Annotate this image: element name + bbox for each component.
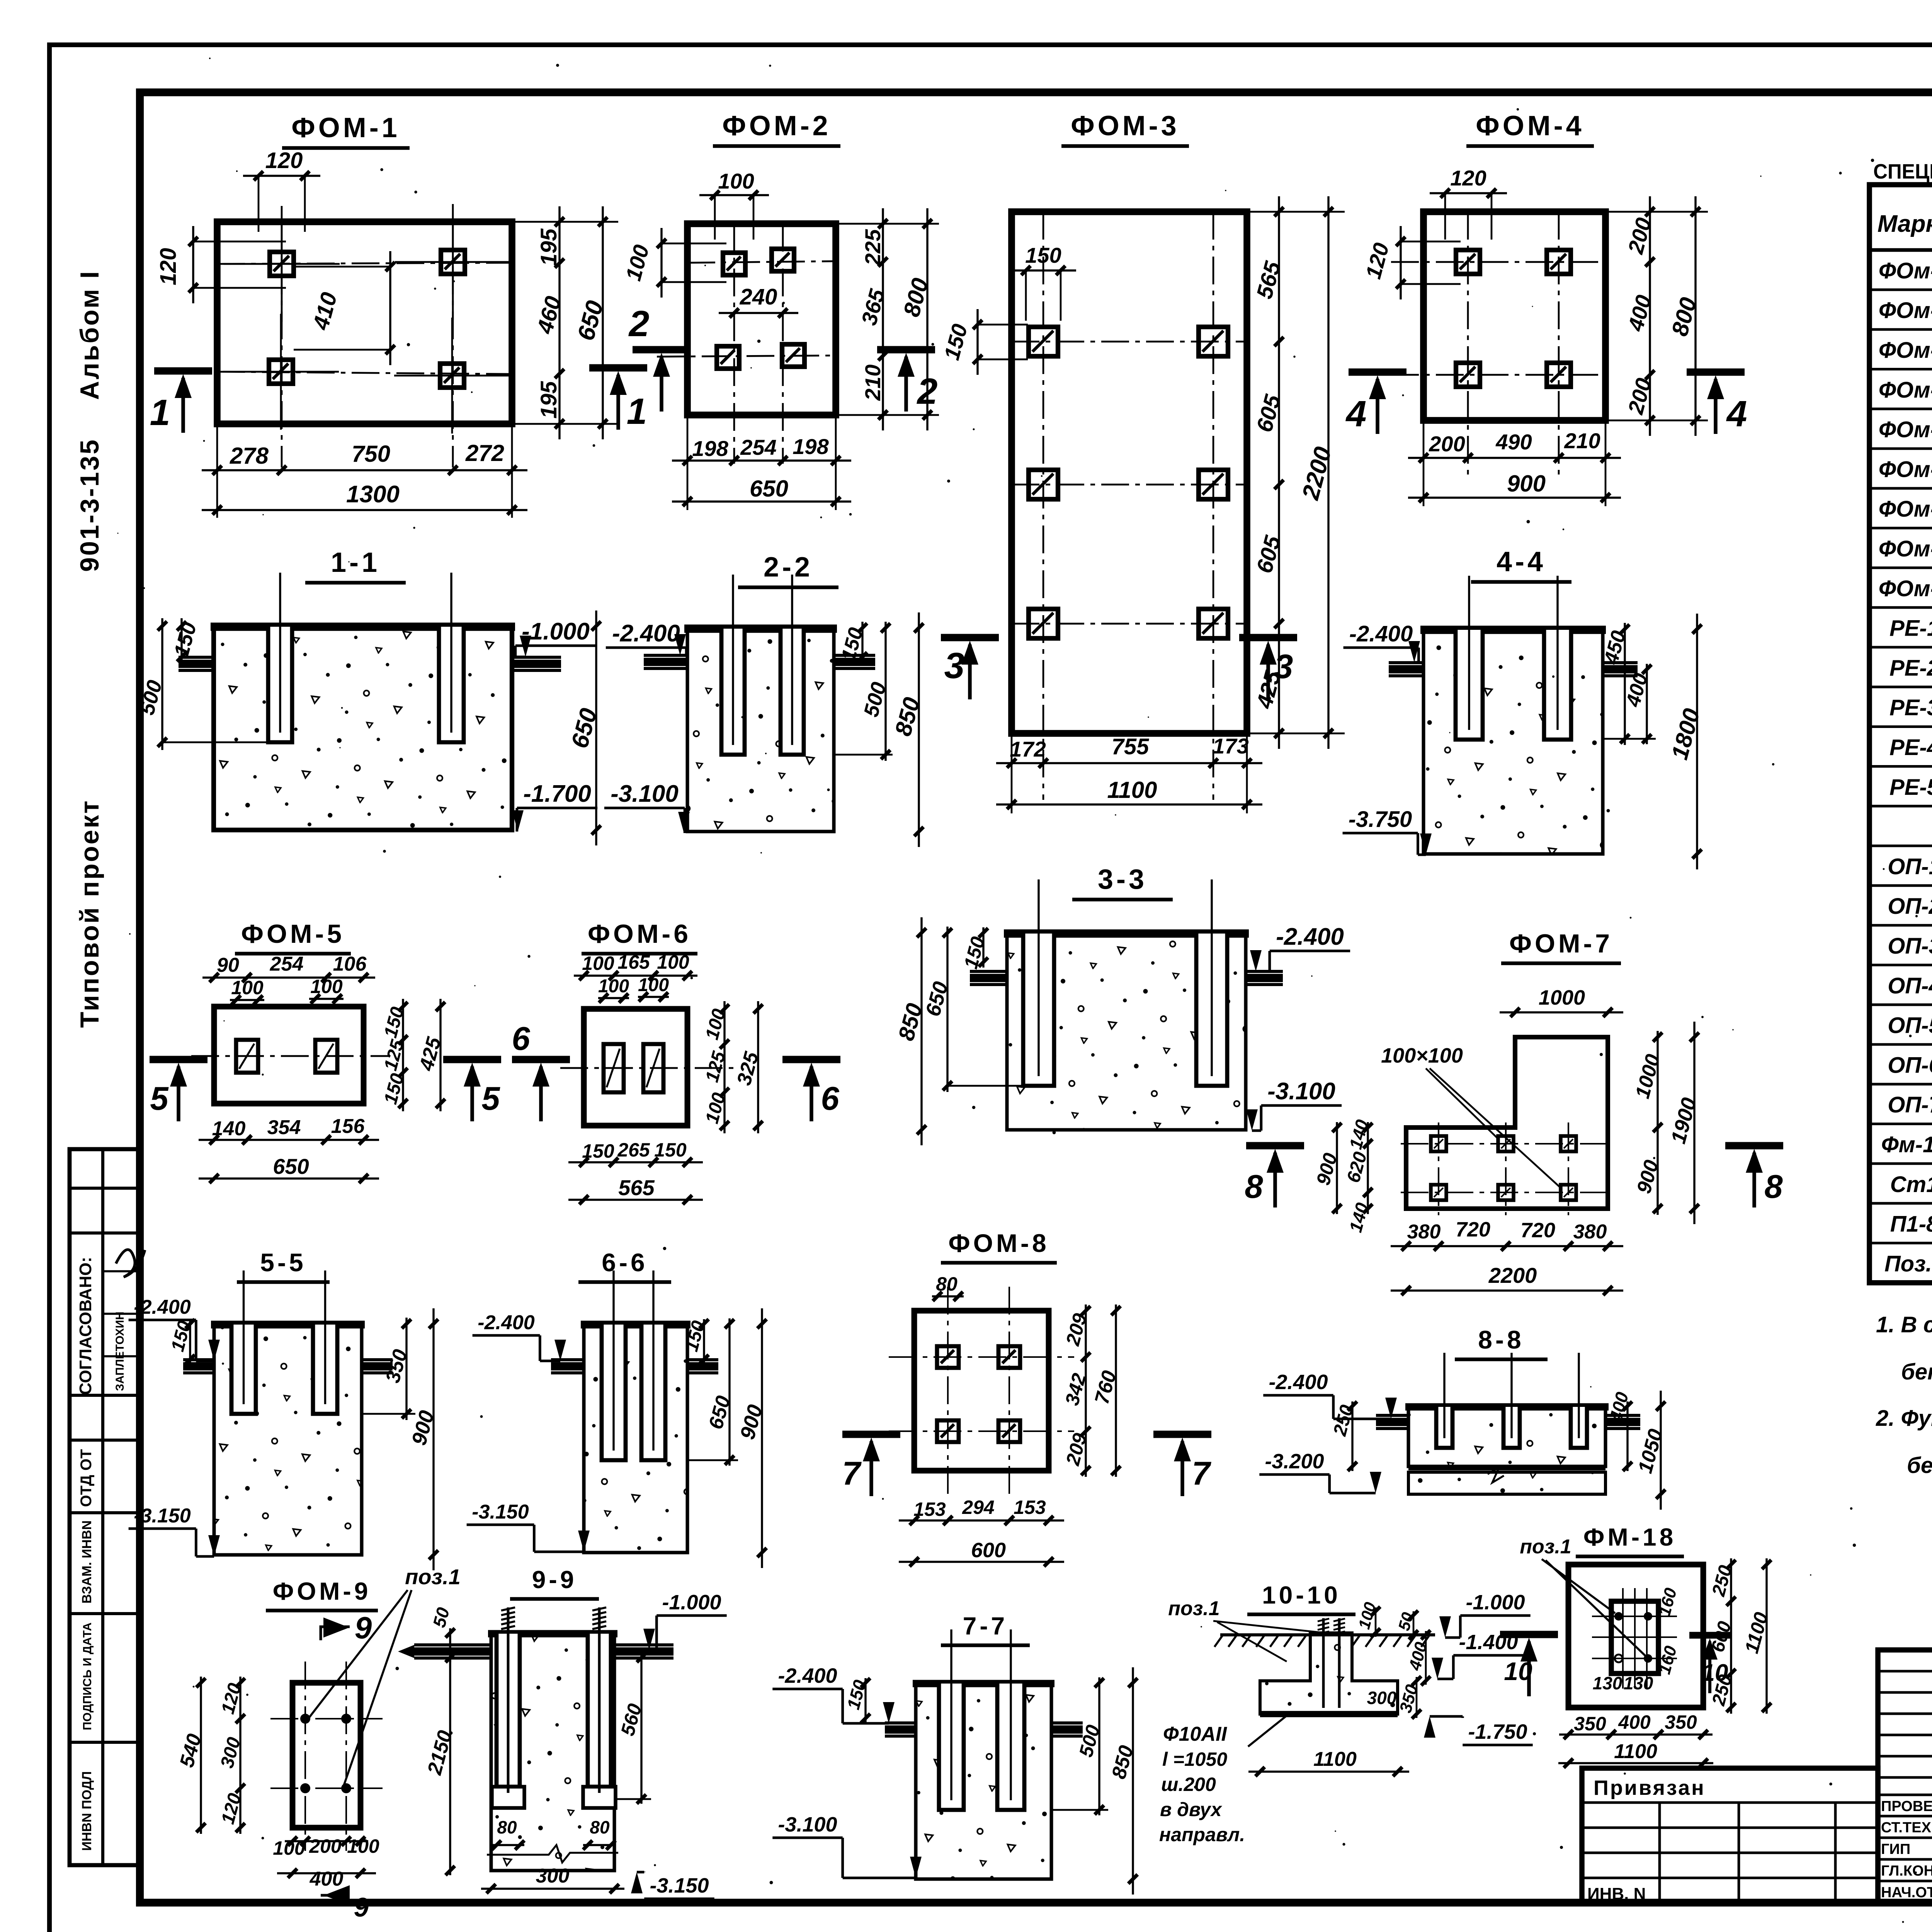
svg-text:РЕ-1: РЕ-1 — [1889, 616, 1932, 641]
section mark 5 left — [150, 1056, 207, 1063]
section mark 1 left — [154, 367, 212, 375]
svg-text:720: 720 — [1456, 1218, 1490, 1241]
svg-text:650: 650 — [750, 476, 788, 502]
svg-text:1100: 1100 — [1313, 1748, 1357, 1770]
plan FOM-1 dim 410 — [389, 251, 391, 365]
section 9-9 pipes — [414, 1643, 491, 1646]
svg-text:106: 106 — [333, 953, 367, 975]
svg-text:ИНВ. N: ИНВ. N — [1587, 1884, 1646, 1903]
svg-text:565: 565 — [618, 1175, 655, 1200]
plan FOM-3 bottom dims 172/755/173/1100 — [996, 762, 1262, 764]
plan FOM-7 bottom dims 380/720/720/380/2200 — [1391, 1245, 1623, 1247]
plan FOM-8 bottom dims 153/294/153/600 — [899, 1519, 1064, 1521]
svg-text:Марка: Марка — [1878, 211, 1932, 237]
plan FOM-5 top dims 90/254/106 + 100/100 — [202, 976, 375, 978]
section 5-5 slots — [231, 1325, 256, 1414]
plan FOM-9 outline — [293, 1683, 361, 1828]
section 2-2 slots — [721, 629, 745, 755]
svg-text:ФОМ-1: ФОМ-1 — [291, 112, 400, 143]
section 4-4 pipes — [1389, 661, 1423, 664]
svg-text:100: 100 — [347, 1835, 379, 1857]
svg-text:4: 4 — [1345, 393, 1367, 434]
svg-text:150: 150 — [1025, 243, 1061, 267]
svg-text:380: 380 — [1573, 1221, 1607, 1243]
svg-text:350: 350 — [1665, 1711, 1697, 1733]
svg-text:Фм-18: Фм-18 — [1881, 1132, 1932, 1157]
plan FM-18 bolt dots — [1614, 1612, 1623, 1621]
plan FOM-1 top dim 120 — [243, 175, 320, 177]
plan FOM-1 bottom dims 278/750/272/1300 — [202, 469, 527, 471]
svg-text:ФОм-7: ФОм-7 — [1879, 497, 1932, 522]
svg-text:755: 755 — [1112, 734, 1150, 759]
section 10-10 sec mark 10 — [1500, 1631, 1558, 1638]
svg-text:поз.1: поз.1 — [1520, 1536, 1571, 1558]
section 8-8 upper body — [1408, 1406, 1605, 1466]
section 5-5 right dims 350/900 — [405, 1318, 407, 1420]
svg-text:-2.400: -2.400 — [478, 1311, 535, 1334]
plan FOM-5 bottom dims 140/354/156/650 — [199, 1139, 379, 1141]
section mark 2 left — [633, 346, 690, 354]
plan FM-18 sec mark 10 — [1689, 1632, 1730, 1639]
plan FOM-8 anchor squares — [937, 1346, 959, 1368]
svg-text:1: 1 — [150, 392, 170, 433]
svg-text:ОП-4: ОП-4 — [1888, 973, 1932, 998]
section 8-8 right dims 400/1050 — [1626, 1401, 1628, 1471]
plan FOM-9 section mark 9 top — [321, 1627, 350, 1640]
svg-text:10: 10 — [1702, 1660, 1728, 1686]
section mark 2 right — [877, 346, 935, 354]
svg-text:ОП-5: ОП-5 — [1888, 1013, 1932, 1038]
svg-text:100: 100 — [657, 951, 689, 973]
left margin lower table (approvals) — [70, 1149, 140, 1865]
section 5-5 body — [214, 1324, 362, 1555]
section 10-10 bottom dim 1100 — [1248, 1770, 1409, 1772]
svg-text:254: 254 — [740, 435, 776, 459]
svg-text:ФОм-4: ФОм-4 — [1879, 378, 1932, 403]
plan FM-18 inner column with mesh — [1611, 1601, 1658, 1673]
svg-text:3-3: 3-3 — [1098, 864, 1147, 895]
svg-text:172: 172 — [1010, 737, 1046, 761]
plan FOM-5 outline — [214, 1007, 364, 1104]
section 4-4 slots — [1456, 630, 1483, 740]
plan FOM-4 top dim 120 — [1430, 192, 1507, 194]
plan FOM-3 axes — [1043, 212, 1044, 800]
section 4-4 body — [1423, 629, 1603, 854]
section mark 1 right — [589, 364, 647, 372]
plan FOM-6 bottom dims 150/265/150/565 — [568, 1161, 703, 1163]
svg-text:ФОм-9: ФОм-9 — [1879, 576, 1932, 601]
svg-text:СТ.ТЕХНИК: СТ.ТЕХНИК — [1881, 1820, 1932, 1836]
section 1-1 pipes — [179, 656, 214, 659]
plan FOM-4 axes — [1467, 212, 1469, 475]
svg-text:ФОМ-8: ФОМ-8 — [948, 1229, 1049, 1257]
svg-text:265: 265 — [617, 1139, 650, 1161]
plan FOM-9 bottom dims 100/200/100/400 — [285, 1840, 368, 1842]
svg-text:900: 900 — [1507, 471, 1546, 497]
svg-text:90: 90 — [217, 954, 239, 976]
svg-text:2200: 2200 — [1488, 1263, 1537, 1287]
section 3-3 body — [1007, 933, 1246, 1130]
section 10-10 pedestal — [1260, 1633, 1398, 1714]
svg-text:8: 8 — [1764, 1168, 1783, 1205]
plan FOM-4 left dim 120 — [1400, 226, 1401, 299]
svg-text:ЗАПЛЕТОХИН: ЗАПЛЕТОХИН — [114, 1311, 126, 1391]
section 3-3 slots — [1023, 934, 1054, 1086]
svg-text:бетона М 150.: бетона М 150. — [1907, 1453, 1932, 1478]
section mark 6 left — [512, 1056, 570, 1063]
svg-text:278: 278 — [230, 443, 269, 469]
svg-text:поз.1: поз.1 — [405, 1565, 461, 1589]
plan FOM-2 axes — [733, 224, 735, 464]
svg-text:ФОМ-5: ФОМ-5 — [241, 919, 345, 949]
svg-text:7-7: 7-7 — [963, 1612, 1008, 1640]
svg-text:210: 210 — [861, 364, 885, 401]
section 2-2 body — [687, 628, 834, 832]
plan FOM-2 dim 240 — [719, 312, 798, 314]
svg-text:-2.400: -2.400 — [778, 1664, 837, 1687]
section mark 7 right — [1153, 1431, 1211, 1438]
svg-text:901-3-135: 901-3-135 — [75, 438, 104, 572]
plan FOM-1 left dim 120 — [192, 226, 194, 303]
section 6-6 body — [584, 1324, 687, 1553]
svg-text:5: 5 — [150, 1080, 169, 1117]
svg-text:100×100: 100×100 — [1381, 1044, 1463, 1067]
svg-text:2: 2 — [917, 371, 938, 412]
section mark 3 right — [1239, 634, 1297, 641]
plan FM-18 right dims 250/600/10?/250 + 1100 — [1730, 1558, 1732, 1714]
svg-text:100: 100 — [273, 1837, 305, 1859]
plan FOM-7 axes — [1438, 1122, 1439, 1215]
svg-text:120: 120 — [156, 248, 181, 286]
section 8-8 left dim 250 — [1351, 1401, 1353, 1471]
svg-text:10: 10 — [1504, 1657, 1532, 1685]
svg-text:-3.750: -3.750 — [1349, 807, 1412, 832]
plan FOM-5 slots — [236, 1040, 258, 1073]
svg-text:РЕ-2: РЕ-2 — [1889, 655, 1932, 680]
svg-text:ФОм-2: ФОм-2 — [1879, 298, 1932, 323]
svg-text:-2.400: -2.400 — [612, 620, 680, 647]
svg-text:2. Фундаменты под оборудован: 2. Фундаменты под оборудование выполнить… — [1876, 1406, 1932, 1431]
svg-text:-2.400: -2.400 — [1269, 1371, 1328, 1394]
plan FM-18 bottom dims 350/400/350/1100 — [1559, 1733, 1713, 1735]
svg-text:350: 350 — [1574, 1713, 1606, 1735]
specification table grid — [1869, 185, 1932, 1283]
section 5-5 left dim 150 — [189, 1319, 191, 1364]
plan FOM-3 anchor squares — [1029, 327, 1058, 356]
section mark 4 left — [1349, 369, 1406, 376]
svg-text:-3.150: -3.150 — [134, 1505, 191, 1527]
plan FOM-9 section mark 9 bottom — [321, 1894, 350, 1897]
section 8-8 pipes — [1376, 1414, 1408, 1417]
svg-text:-2.400: -2.400 — [1349, 621, 1413, 646]
section 3-3 left dims 150/650/850 — [982, 927, 984, 968]
signature squiggle — [116, 1250, 145, 1277]
section 7-7 left dim 150 — [864, 1678, 866, 1723]
svg-text:100: 100 — [718, 169, 754, 193]
svg-text:СПЕЦИФИКАЦИЯ ЭЛЕМЕНТОВ К СХЕМА: СПЕЦИФИКАЦИЯ ЭЛЕМЕНТОВ К СХЕМАМ, РАСПОЛО… — [1873, 160, 1932, 183]
plan FOM-8 axes — [947, 1287, 949, 1495]
plan FOM-8 top dim 80 — [932, 1295, 964, 1297]
svg-text:1100: 1100 — [1614, 1740, 1657, 1763]
section 8-8 slots — [1436, 1407, 1452, 1448]
plan FOM-7 left dims 140/620/900/140 — [1367, 1122, 1369, 1214]
svg-text:ФОМ-2: ФОМ-2 — [722, 111, 831, 141]
section 6-6 pipes — [551, 1358, 584, 1361]
svg-text:400: 400 — [310, 1868, 344, 1890]
svg-text:600: 600 — [971, 1539, 1006, 1562]
svg-text:120: 120 — [265, 148, 303, 173]
svg-text:9: 9 — [354, 1892, 369, 1922]
section 1-1 left dims 150/500 — [180, 618, 182, 665]
section 4-4 right dims 450/400/1800 — [1624, 623, 1626, 745]
plan FOM-2 top dim 100 — [699, 194, 769, 196]
svg-text:5-5: 5-5 — [260, 1248, 306, 1277]
svg-text:ГЛ.КОНСТР: ГЛ.КОНСТР — [1881, 1863, 1932, 1879]
section 10-10 right dims 100/50/400/350 — [1375, 1607, 1377, 1637]
section mark 7 left — [842, 1431, 900, 1438]
plan FOM-2 bottom dims 198/254/198/650 — [672, 459, 851, 461]
svg-text:ФОм-5: ФОм-5 — [1879, 417, 1932, 442]
svg-text:ОП-1: ОП-1 — [1888, 854, 1932, 879]
svg-text:100: 100 — [310, 976, 343, 997]
svg-text:ФОм-3: ФОм-3 — [1879, 338, 1932, 363]
svg-text:130: 130 — [1624, 1673, 1653, 1693]
svg-text:-2.400: -2.400 — [134, 1296, 191, 1318]
svg-text:272: 272 — [465, 440, 504, 466]
section 7-7 pipes — [885, 1721, 916, 1725]
svg-text:-3.100: -3.100 — [611, 781, 679, 807]
svg-text:6-6: 6-6 — [602, 1248, 648, 1277]
svg-text:в двух: в двух — [1160, 1799, 1223, 1820]
section 9-9 left dims 50/2150 — [449, 1628, 451, 1662]
section 2-2 pipes — [644, 654, 687, 657]
plan FOM-4 bottom dims 200/490/210/900 — [1408, 457, 1621, 459]
svg-text:300: 300 — [1367, 1688, 1397, 1708]
svg-text:100: 100 — [582, 952, 614, 974]
svg-text:-1.000: -1.000 — [522, 618, 590, 645]
svg-text:5: 5 — [481, 1080, 500, 1117]
svg-text:165: 165 — [617, 951, 650, 973]
svg-text:П1-8: П1-8 — [1890, 1212, 1932, 1237]
svg-text:80: 80 — [590, 1817, 610, 1837]
svg-text:198: 198 — [692, 436, 728, 461]
section mark 5 right — [443, 1056, 501, 1063]
svg-text:-3.200: -3.200 — [1265, 1450, 1324, 1473]
svg-text:80: 80 — [936, 1273, 957, 1295]
svg-text:750: 750 — [352, 441, 390, 467]
svg-text:130: 130 — [1593, 1673, 1622, 1693]
privyazan block — [1582, 1768, 1878, 1903]
svg-text:153: 153 — [913, 1498, 946, 1520]
signature grid — [1878, 1650, 1932, 1903]
plan FOM-4 outline — [1423, 212, 1605, 420]
plan FOM-4 anchor squares — [1456, 250, 1480, 274]
svg-text:6: 6 — [512, 1020, 530, 1057]
plan FOM-3 left dim 150 — [976, 309, 978, 375]
section mark 6 right — [782, 1056, 840, 1063]
svg-text:100: 100 — [638, 975, 669, 995]
svg-text:156: 156 — [331, 1115, 365, 1138]
svg-text:-3.150: -3.150 — [472, 1501, 529, 1523]
plan FOM-1 right dims 195/460/195/650 — [558, 206, 560, 439]
svg-text:Ф10АII: Ф10АII — [1163, 1723, 1227, 1745]
svg-text:ФОМ-4: ФОМ-4 — [1476, 111, 1584, 141]
plan FOM-9 axes — [304, 1662, 306, 1851]
svg-text:150: 150 — [582, 1140, 614, 1162]
svg-text:380: 380 — [1407, 1221, 1441, 1243]
svg-text:-2.400: -2.400 — [1276, 923, 1344, 950]
plan FOM-6 outline — [584, 1009, 687, 1126]
section mark 8 left — [1246, 1142, 1304, 1150]
svg-text:140: 140 — [212, 1117, 246, 1140]
svg-text:ФОм-8: ФОм-8 — [1879, 536, 1932, 561]
plan FOM-6 slots — [604, 1044, 624, 1092]
plan FOM-1 anchor squares — [224, 263, 340, 265]
section 9-9 anchor bolts with hatch tops — [507, 1607, 510, 1793]
plan FOM-5 right dims 150/125/150/425 — [402, 999, 404, 1111]
svg-text:направл.: направл. — [1159, 1824, 1245, 1845]
svg-text:-3.150: -3.150 — [650, 1874, 709, 1897]
svg-text:3: 3 — [944, 645, 965, 686]
svg-text:2-2: 2-2 — [764, 552, 813, 583]
svg-text:3: 3 — [1274, 647, 1293, 685]
svg-text:400: 400 — [1618, 1711, 1651, 1733]
svg-text:1300: 1300 — [346, 481, 400, 508]
svg-text:490: 490 — [1495, 430, 1532, 454]
svg-text:7: 7 — [842, 1455, 862, 1492]
svg-text:-1.750: -1.750 — [1468, 1720, 1527, 1743]
svg-text:СОГЛАСОВАНО:: СОГЛАСОВАНО: — [76, 1257, 95, 1395]
svg-text:ФОМ-9: ФОМ-9 — [273, 1577, 371, 1605]
svg-text:100: 100 — [598, 976, 629, 997]
svg-text:ОП-7: ОП-7 — [1888, 1092, 1932, 1117]
section 9-9 right dim 560 — [640, 1653, 642, 1804]
svg-text:НАЧ.ОТД.: НАЧ.ОТД. — [1881, 1884, 1932, 1901]
svg-text:240: 240 — [740, 284, 777, 310]
plan FOM-7 top dim 1000 — [1500, 1011, 1623, 1013]
plan FOM-2 right dims 225/365/210/800 — [882, 208, 884, 430]
svg-text:650: 650 — [273, 1154, 309, 1179]
plan FOM-2 left dim 100 — [660, 228, 662, 298]
svg-text:РЕ-4: РЕ-4 — [1889, 735, 1932, 760]
svg-text:7: 7 — [1192, 1455, 1211, 1492]
section 10-10 ground line — [1220, 1633, 1435, 1636]
svg-text:120: 120 — [1450, 166, 1486, 190]
section mark 8 right — [1725, 1142, 1783, 1150]
svg-text:-1.000: -1.000 — [662, 1591, 721, 1614]
section 9-9 body — [491, 1633, 614, 1871]
plan FOM-3 right dims 565/605/605/425/2200 — [1278, 196, 1280, 749]
svg-text:ФМ-18: ФМ-18 — [1583, 1523, 1676, 1551]
svg-text:1100: 1100 — [1107, 777, 1157, 803]
svg-text:354: 354 — [267, 1116, 301, 1139]
plan FOM-4 right dims 200/400/200/800 — [1649, 196, 1651, 436]
svg-text:195: 195 — [536, 228, 561, 266]
section 5-5 pipes — [183, 1358, 214, 1361]
svg-text:ГИП: ГИП — [1881, 1841, 1910, 1857]
svg-text:2: 2 — [628, 303, 650, 344]
section 7-7 right dims 500/850 — [1098, 1677, 1100, 1815]
svg-text:Ст1: Ст1 — [1890, 1172, 1932, 1197]
svg-text:254: 254 — [270, 953, 304, 975]
svg-text:6: 6 — [821, 1080, 839, 1117]
svg-text:ИНВN ПОДЛ: ИНВN ПОДЛ — [80, 1771, 94, 1851]
svg-text:1000: 1000 — [1539, 986, 1585, 1009]
svg-text:l =1050: l =1050 — [1162, 1748, 1227, 1770]
svg-text:РЕ-3: РЕ-3 — [1889, 695, 1932, 720]
svg-text:1: 1 — [627, 391, 647, 432]
section 1-1 right dim 650 — [595, 611, 597, 845]
svg-text:-3.100: -3.100 — [778, 1813, 837, 1836]
svg-text:ФОм-6: ФОм-6 — [1879, 457, 1932, 482]
section 8-8 break marks — [1488, 1467, 1504, 1483]
svg-text:ФОм-1: ФОм-1 — [1879, 258, 1932, 283]
section 8-8 lower slab — [1408, 1472, 1605, 1494]
svg-text:4-4: 4-4 — [1497, 546, 1546, 577]
svg-text:Привязан: Привязан — [1594, 1776, 1706, 1799]
section 1-1 body — [214, 626, 512, 830]
svg-text:ВЗАМ. ИНВN: ВЗАМ. ИНВN — [80, 1520, 94, 1604]
section mark 4 right — [1687, 369, 1745, 376]
plan FOM-8 outline — [914, 1311, 1049, 1471]
svg-text:4: 4 — [1726, 393, 1747, 434]
svg-text:10-10: 10-10 — [1262, 1581, 1341, 1609]
section 9-9 slots with feet — [497, 1634, 520, 1787]
section 6-6 slots — [602, 1325, 626, 1460]
section 7-7 body — [916, 1683, 1051, 1879]
svg-text:РЕ-5: РЕ-5 — [1889, 775, 1932, 800]
svg-text:ОП-6: ОП-6 — [1888, 1053, 1932, 1078]
plan FOM-9 left dims 120/300/120/540 — [239, 1677, 241, 1834]
plan FOM-2 anchor squares — [723, 253, 745, 275]
section 1-1 slots — [268, 627, 292, 742]
plan FOM-2 outline — [687, 224, 836, 415]
plan FOM-6 top dims 100/165/100 + 100/100 — [574, 975, 697, 976]
svg-text:ш.200: ш.200 — [1161, 1774, 1216, 1795]
plan FOM-9 anchor bolts (dots) — [300, 1714, 310, 1724]
svg-text:Типовой проект: Типовой проект — [75, 799, 104, 1028]
svg-text:-1.700: -1.700 — [523, 781, 591, 807]
svg-text:225: 225 — [861, 229, 885, 265]
svg-text:-3.100: -3.100 — [1267, 1078, 1335, 1105]
svg-text:ОП-3: ОП-3 — [1888, 934, 1932, 959]
svg-text:100: 100 — [231, 977, 264, 998]
svg-text:Альбом I: Альбом I — [75, 270, 104, 400]
svg-text:210: 210 — [1564, 429, 1600, 453]
svg-text:ОП-2: ОП-2 — [1888, 894, 1932, 919]
svg-text:бетона М100 на 1 фундамент: бетона М100 на 1 фундамент и на 1 опору. — [1901, 1359, 1932, 1384]
plan FM-18 outer outline — [1568, 1565, 1703, 1708]
plan FOM-3 top dim 150 — [1010, 269, 1076, 271]
plan FOM-7 anchor squares small — [1431, 1136, 1446, 1151]
plan FOM-6 right dims 100/125/100/325 — [723, 1001, 725, 1133]
svg-text:198: 198 — [793, 434, 829, 459]
svg-text:294: 294 — [962, 1497, 994, 1518]
svg-text:9-9: 9-9 — [532, 1566, 577, 1594]
plan FOM-8 right dims 209/342/209/760 — [1085, 1304, 1087, 1477]
svg-text:ПОДПИСЬ И ДАТА: ПОДПИСЬ И ДАТА — [80, 1622, 94, 1730]
section 9-9 bottom dim 300 — [481, 1888, 624, 1889]
svg-text:ФОМ-7: ФОМ-7 — [1509, 929, 1613, 958]
section 6-6 right dims 150/650/900 — [703, 1319, 705, 1364]
section 3-3 pipes — [970, 970, 1007, 973]
svg-text:8: 8 — [1245, 1168, 1263, 1205]
svg-text:ПРОВЕРИЛ: ПРОВЕРИЛ — [1881, 1798, 1932, 1815]
svg-text:-1.000: -1.000 — [1466, 1591, 1525, 1614]
svg-text:300: 300 — [536, 1865, 570, 1887]
svg-text:1-1: 1-1 — [331, 547, 380, 578]
section 2-2 right dims 150/500/850 — [861, 622, 863, 663]
